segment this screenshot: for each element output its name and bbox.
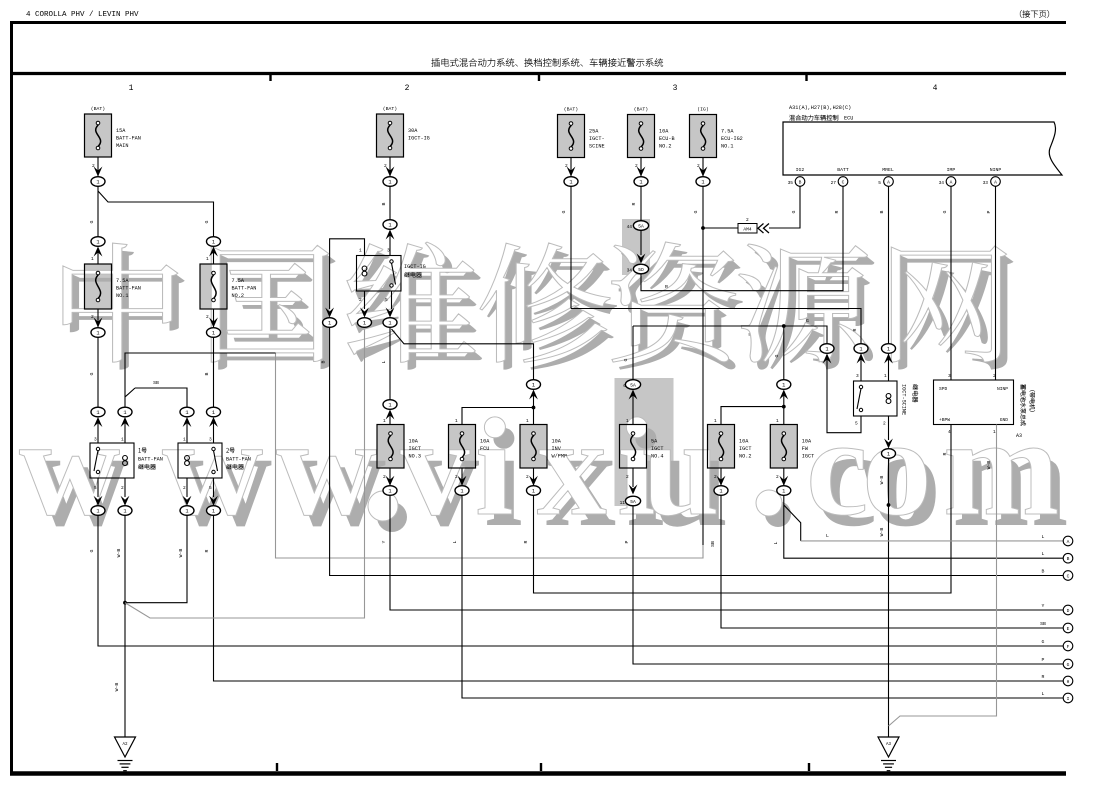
wire label R 6: [631, 202, 637, 205]
svg-text:BATT-FAN: BATT-FAN: [116, 136, 141, 142]
node connector 1 (coil feed): [323, 318, 337, 328]
svg-text:1: 1: [185, 509, 188, 515]
page header text: [26, 11, 139, 19]
wire 25A out down: [570, 186, 572, 308]
wire SCINE pin5 loop: [827, 355, 861, 433]
svg-text:B: B: [204, 372, 210, 375]
section number 4: [933, 84, 938, 93]
svg-text:1: 1: [212, 240, 215, 246]
component A3 蓄电池水泵总成 (带电机): [934, 373, 1036, 439]
wire label R 5: [852, 328, 858, 331]
pin 1 of fuse BATT-FAN NO.2: [206, 256, 209, 262]
node connector 1 (G bus end): [820, 344, 834, 364]
svg-text:G: G: [623, 358, 629, 361]
title text 插电式混合动力系统、换档控制系统、车辆接近警示系统: [432, 58, 664, 66]
svg-text:L: L: [773, 541, 779, 544]
svg-text:7.5A: 7.5A: [232, 278, 245, 284]
svg-text:2: 2: [714, 474, 717, 480]
svg-text:1: 1: [701, 180, 704, 186]
fuse 30A IGCT-IG: [377, 106, 430, 157]
relay K2 2号 BATT-FAN 继电器: [178, 437, 251, 492]
page connector H: [1063, 676, 1073, 686]
fuse 7.5A BATT-FAN NO.1: [85, 264, 141, 309]
svg-text:1: 1: [96, 410, 99, 416]
wire NO.2 out down: [213, 337, 215, 407]
svg-text:MREL: MREL: [882, 167, 894, 173]
svg-text:SB: SB: [153, 380, 159, 386]
node connector 1 (NO.2/FW feed): [777, 380, 791, 400]
svg-text:3: 3: [673, 84, 678, 93]
wire net P to connector G: [633, 506, 1063, 664]
junction G bus: [782, 324, 786, 328]
page connector F: [1063, 641, 1073, 651]
svg-text:25A: 25A: [589, 129, 599, 135]
wire IMP to A3 SPD: [950, 186, 952, 380]
svg-text:P: P: [986, 210, 992, 213]
wire label L 2: [452, 540, 458, 543]
wire label Y at connector D: [1042, 603, 1045, 609]
svg-text:W-B: W-B: [178, 549, 184, 558]
svg-text:D: D: [1067, 608, 1070, 614]
svg-text:33: 33: [983, 180, 989, 186]
pin 1 of fuse INV W/PMP: [526, 418, 529, 424]
node connector 1 (FW out): [777, 486, 791, 496]
svg-text:G: G: [89, 549, 95, 552]
wire label L 4: [826, 533, 829, 539]
wire 15A out to BATT-FAN NO.1 fuse: [97, 186, 99, 236]
svg-text:BATT-FAN: BATT-FAN: [116, 286, 141, 292]
fuse body fill at 213.5,264: [200, 264, 227, 309]
svg-text:L: L: [381, 360, 387, 363]
svg-text:A31(A),H27(B),H28(C): A31(A),H27(B),H28(C): [789, 105, 851, 111]
svg-text:10A: 10A: [552, 439, 562, 445]
svg-text:10A: 10A: [409, 439, 419, 445]
fuse 10A FCU: [449, 425, 491, 469]
wire AM4 to ECU IG2: [769, 186, 800, 228]
svg-text:1: 1: [96, 509, 99, 515]
wire fuse ECU-B to connector: [640, 158, 642, 177]
wire net 25A to SCINE relay: [571, 309, 861, 344]
svg-text:1: 1: [363, 321, 366, 327]
svg-text:7.5A: 7.5A: [116, 278, 129, 284]
wire branch to BATT-FAN NO.2 fuse: [98, 191, 214, 237]
wire label G 10: [774, 354, 780, 357]
svg-text:2: 2: [121, 485, 124, 491]
node connector 1 (25A out): [564, 177, 578, 187]
svg-text:1: 1: [887, 347, 890, 353]
svg-text:27: 27: [831, 180, 837, 186]
svg-text:1: 1: [91, 256, 94, 262]
node connector 1 (relay2 sw out): [207, 506, 221, 516]
junction AM4 branch: [701, 226, 705, 230]
wire into relay1 pin3: [97, 422, 99, 444]
wire net R to ECU BATT: [641, 186, 843, 290]
wire label W-B 2: [178, 549, 184, 558]
svg-text:G: G: [89, 372, 95, 375]
wire fuse 15A to connector: [97, 157, 99, 176]
wire into relay2 pin1: [186, 422, 188, 444]
pin 2 of fuse FCU: [455, 474, 458, 480]
svg-text:NO.2: NO.2: [232, 293, 244, 299]
connector pin 44 (5A): [627, 221, 649, 231]
fuse 7.5A BATT-FAN NO.2: [200, 264, 256, 309]
wire label P at connector G: [1042, 657, 1045, 663]
wire label R 3: [523, 540, 529, 543]
wire IGCT-IG coil bypass: [330, 239, 365, 309]
svg-text:1: 1: [639, 180, 642, 186]
svg-text:1: 1: [455, 418, 458, 424]
wire ECU-IG2 out down: [702, 186, 704, 228]
svg-text:NO.2: NO.2: [739, 454, 751, 460]
wire to AM4: [703, 227, 738, 229]
svg-text:B: B: [1067, 556, 1070, 562]
wire net R to water pump: [534, 425, 952, 594]
fuse body fill at 462,424.5: [449, 425, 476, 469]
ECU pin 34 (A) IMP: [939, 177, 956, 187]
wire label W-B 4: [879, 476, 885, 485]
pin 1 of fuse BATT-FAN NO.1: [91, 256, 94, 262]
svg-text:1: 1: [388, 223, 391, 229]
wire label G 11: [942, 210, 948, 213]
svg-text:R: R: [852, 328, 858, 331]
node connector 1 (relay1 switch in): [91, 407, 105, 427]
svg-text:A3: A3: [886, 743, 892, 747]
fuse 10A IGCT NO.3: [377, 425, 421, 469]
wire diag to INV/FCU feed: [392, 329, 534, 380]
svg-text:IGCT-IG: IGCT-IG: [404, 264, 426, 270]
wire into NO.2 fuse: [213, 251, 215, 264]
wire label R 8: [834, 210, 840, 213]
wire into SCINE pin3: [860, 353, 862, 381]
fuse 10A ECU-B NO.2: [628, 107, 675, 158]
fuse 10A INV W/PMP: [520, 425, 567, 469]
pin 1 of fuse IGCT NO.2: [714, 418, 717, 424]
section number 1: [129, 84, 134, 93]
svg-text:NO.3: NO.3: [409, 454, 421, 460]
svg-text:IGCT-IG: IGCT-IG: [408, 136, 430, 142]
svg-text:ECU: ECU: [844, 116, 853, 122]
svg-text:1: 1: [884, 373, 887, 379]
arrow into connector (NO.2 out): [209, 318, 218, 328]
svg-text:IGCT-: IGCT-: [589, 136, 605, 142]
svg-text:1: 1: [782, 383, 785, 389]
node connector 1 (relay1 coil in): [118, 407, 132, 427]
wire into SCINE pin1: [888, 353, 890, 381]
arrow into connector (15A out): [94, 167, 103, 177]
wire branch to connector A: [784, 505, 1063, 541]
title separator line: [10, 72, 1066, 75]
svg-text:BATT: BATT: [837, 167, 849, 173]
arrow into connector (25A out): [567, 167, 576, 177]
connector pin 11 (5A): [620, 496, 641, 506]
section number 3: [673, 84, 678, 93]
svg-text:1: 1: [569, 180, 572, 186]
svg-text:INV: INV: [552, 446, 562, 452]
svg-text:11: 11: [620, 500, 626, 506]
svg-text:4 COROLLA PHV / LEVIN PHV: 4 COROLLA PHV / LEVIN PHV: [26, 11, 139, 19]
wire label SB at connector E: [1040, 621, 1046, 627]
pin 2 of fuse 10A ECU-B: [635, 163, 638, 169]
svg-text:2: 2: [526, 474, 529, 480]
svg-text:G: G: [561, 210, 567, 213]
fuse body fill at 571,114.5: [558, 115, 585, 158]
wire label P 1: [624, 540, 630, 543]
node connector 1 (FCU out): [455, 486, 469, 496]
svg-text:SB: SB: [710, 541, 716, 547]
svg-text:R: R: [1042, 674, 1045, 680]
svg-text:1: 1: [212, 410, 215, 416]
svg-text:1: 1: [183, 437, 186, 443]
wire into NO.1 fuse: [97, 251, 99, 264]
svg-text:1: 1: [776, 418, 779, 424]
wire into IGCT-IG relay pin3: [389, 234, 391, 256]
svg-text:P: P: [624, 540, 630, 543]
wire relay2 pin5 out: [209, 478, 218, 506]
wire IGCT NO.3 out: [386, 468, 395, 486]
svg-text:2: 2: [405, 84, 410, 93]
section number 2: [405, 84, 410, 93]
connector pin 34 (5D): [627, 264, 649, 274]
wire fuse 25A to connector: [570, 158, 572, 177]
svg-text:A: A: [950, 179, 953, 185]
svg-text:L: L: [826, 533, 829, 539]
svg-text:I: I: [1067, 696, 1070, 702]
wire label W-B 1: [116, 549, 122, 558]
svg-text:1: 1: [212, 509, 215, 515]
fuse 10A FW IGCT: [770, 425, 814, 469]
svg-text:3: 3: [209, 437, 212, 443]
svg-text:A: A: [1067, 539, 1070, 545]
svg-text:C: C: [842, 179, 845, 185]
node connector 1 (SCINE coil out): [882, 449, 896, 459]
svg-text:1: 1: [185, 410, 188, 416]
svg-text:B: B: [381, 202, 387, 205]
fuse body fill at 533.5,424.5: [520, 425, 547, 469]
svg-text:5A: 5A: [651, 439, 658, 445]
wire INV out: [529, 468, 538, 486]
wire label L 1: [381, 360, 387, 363]
fuse body fill at 641,114.5: [628, 115, 655, 158]
svg-text:L: L: [1042, 691, 1045, 697]
node connector 1 (INV out): [527, 486, 541, 496]
svg-text:2: 2: [626, 474, 629, 480]
relay K3 IGCT-IG 继电器: [357, 248, 426, 304]
pin 2 of fuse 25A: [565, 163, 568, 169]
watermark row 1 中国维修资源网: [63, 242, 1014, 370]
junction NO.2/FW: [782, 405, 786, 409]
svg-text:R: R: [665, 284, 668, 290]
page connector I: [1063, 693, 1073, 703]
svg-text:ECU-B: ECU-B: [659, 136, 675, 142]
wire 30A out down: [389, 186, 391, 220]
svg-text:BATT-FAN: BATT-FAN: [138, 457, 163, 463]
svg-text:35: 35: [788, 180, 794, 186]
fusible link AM4: [738, 217, 769, 233]
svg-text:15A: 15A: [116, 128, 126, 134]
fuse 15A BATT-FAN MAIN: [85, 106, 141, 157]
svg-text:FCU: FCU: [480, 446, 489, 452]
svg-text:R: R: [204, 549, 210, 552]
pin 1 of fuse IGCT NO.4: [626, 418, 629, 424]
svg-text:2: 2: [746, 217, 749, 223]
svg-text:5: 5: [385, 297, 388, 303]
svg-text:3: 3: [856, 373, 859, 379]
wire SCINE coil to ground: [888, 458, 890, 737]
svg-text:F: F: [1067, 644, 1070, 650]
svg-text:G: G: [806, 318, 809, 324]
wire FCU feed: [462, 408, 534, 425]
node connector 1 (IGCT-IG sw out): [383, 318, 397, 328]
svg-text:A3: A3: [1016, 433, 1022, 439]
svg-text:P: P: [1042, 657, 1045, 663]
svg-text:(BAT): (BAT): [634, 107, 649, 113]
wire NO.1 out down: [97, 337, 99, 407]
wire into NO.4 fuse: [632, 394, 634, 425]
node connector 1 (SCINE sw in): [854, 344, 868, 364]
svg-text:R: R: [631, 202, 637, 205]
wire label G: [89, 220, 95, 223]
wire SB coil feed net: [125, 228, 703, 558]
wire label G 5: [561, 210, 567, 213]
svg-text:B: B: [879, 210, 885, 213]
wire net R to connector H: [214, 515, 1064, 681]
svg-text:IGCT: IGCT: [739, 446, 751, 452]
svg-text:IGCT: IGCT: [409, 446, 421, 452]
svg-text:W-B: W-B: [879, 528, 885, 537]
wire label G 7: [791, 210, 797, 213]
wire label B 2: [204, 372, 210, 375]
wire MREL down: [888, 186, 890, 343]
node connector 1 (NO.1 in): [91, 237, 105, 257]
ECU pin 5 (A) MREL: [878, 177, 893, 187]
node connector 1 (relay1 coil out): [118, 506, 132, 516]
wire SCINE coil out: [884, 416, 893, 449]
node connector 1 (IGCT-IG relay in): [383, 220, 397, 240]
svg-text:AM4: AM4: [743, 227, 752, 233]
svg-text:1: 1: [96, 240, 99, 246]
svg-text:G: G: [693, 210, 699, 213]
wire label L at connector B: [1042, 551, 1045, 557]
wire label SB coil net: [153, 380, 159, 386]
section tick marks: [271, 74, 810, 771]
svg-text:W/PMP: W/PMP: [552, 454, 568, 460]
svg-text:10A: 10A: [739, 439, 749, 445]
svg-text:1: 1: [206, 256, 209, 262]
wire label R at connector H: [1042, 674, 1045, 680]
wire FW out: [779, 468, 788, 486]
node connector 1 (NO.3 out): [383, 486, 397, 496]
svg-text:1: 1: [993, 429, 996, 435]
wire relay2 coil to ground net: [125, 515, 187, 602]
svg-text:10A: 10A: [802, 439, 812, 445]
wire label G 4: [89, 549, 95, 552]
svg-text:H: H: [1067, 679, 1070, 685]
svg-text:L: L: [1042, 534, 1045, 540]
wire into relay1 pin1: [124, 422, 126, 444]
pin 2 of fuse FW IGCT: [776, 474, 779, 480]
wire FCU out: [458, 468, 467, 486]
wire to NO.2 fuse: [721, 407, 784, 425]
svg-text:IMP: IMP: [947, 167, 956, 173]
watermark row 2 www.vixiu.com: [19, 417, 1066, 532]
pin 2 of NO.2 fuse: [206, 314, 209, 320]
svg-text:IGCT-SCINE: IGCT-SCINE: [901, 384, 907, 415]
svg-text:1: 1: [825, 347, 828, 353]
wire label B 1: [381, 202, 387, 205]
hybrid vehicle control ECU U1: [783, 105, 1062, 175]
arrow into connector (NO.1 out): [94, 318, 103, 328]
wire NO.1 fuse out: [97, 309, 99, 327]
svg-text:1: 1: [212, 331, 215, 337]
svg-text:FW: FW: [802, 446, 809, 452]
wire G bus: [633, 326, 827, 344]
pin 2 of fuse 30A: [384, 163, 387, 169]
svg-text:1: 1: [626, 418, 629, 424]
wire relay1 pin5 out: [94, 478, 103, 506]
svg-text:10A: 10A: [480, 439, 490, 445]
node connector 1 (NO.1 out): [91, 328, 105, 338]
wire NO.2 fuse out: [213, 309, 215, 327]
svg-text:L: L: [1042, 551, 1045, 557]
wire G bus to 6-5A: [632, 326, 634, 380]
svg-text:Y: Y: [1042, 603, 1045, 609]
svg-text:W-B: W-B: [879, 476, 885, 485]
svg-text:1: 1: [388, 403, 391, 409]
svg-text:1: 1: [359, 248, 362, 254]
wire NO.4 out: [629, 468, 638, 495]
svg-text:IGCT: IGCT: [802, 454, 814, 460]
svg-text:G: G: [791, 210, 797, 213]
svg-text:1: 1: [887, 452, 890, 458]
svg-text:30A: 30A: [408, 128, 418, 134]
svg-text:A2: A2: [122, 743, 128, 747]
wire label R 4: [942, 452, 948, 455]
pin 2 of fuse INV W/PMP: [526, 474, 529, 480]
svg-text:5A: 5A: [638, 223, 644, 229]
pin 2 of fuse 15A: [92, 163, 95, 169]
fuse body fill at 390.5,424.5: [377, 425, 404, 469]
svg-text:B: B: [321, 360, 327, 363]
svg-text:G: G: [204, 220, 210, 223]
wire label W-B 5: [879, 528, 885, 537]
arrow into connector (ECU-IG2 out): [699, 167, 708, 177]
wire gray branch to IGCT-IG relay coil: [125, 330, 365, 619]
junction INV/FCU: [532, 406, 536, 410]
page connector E: [1063, 623, 1073, 633]
pin 2 of fuse ECU-IG2: [697, 163, 700, 169]
svg-text:W-B: W-B: [986, 461, 992, 470]
wire to FW fuse: [783, 394, 785, 425]
svg-text:1: 1: [129, 84, 134, 93]
fuse 25A IGCT-SCINE: [558, 107, 605, 158]
ECU pin 33 (A) NINP: [983, 177, 1001, 187]
wire label G 8: [806, 318, 809, 324]
svg-text:ECU-IG2: ECU-IG2: [721, 136, 743, 142]
svg-text:1: 1: [782, 489, 785, 495]
svg-text:Y: Y: [381, 540, 387, 543]
svg-text:W-B: W-B: [114, 683, 120, 692]
svg-text:IG2: IG2: [796, 167, 805, 173]
svg-text:NO.4: NO.4: [651, 454, 663, 460]
wire INV feed: [533, 394, 535, 425]
svg-text:(IG): (IG): [697, 107, 709, 113]
wire IGCT-IG coil out: [360, 291, 369, 318]
wire NINP to A3: [995, 186, 997, 380]
page connector B: [1063, 553, 1073, 563]
connector panel shading (44/34): [622, 219, 650, 275]
relay K1 1号 BATT-FAN 继电器: [90, 437, 163, 492]
node connector 1 (ECU-IG2 out): [696, 177, 710, 187]
